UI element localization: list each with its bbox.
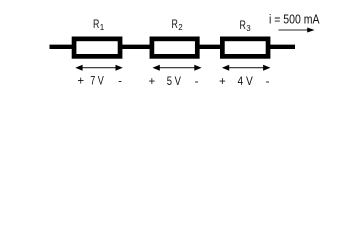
wire <box>50 45 296 49</box>
svg-text:-: - <box>118 76 122 88</box>
current arrow <box>279 28 315 33</box>
resistor R3 <box>222 39 268 57</box>
label +4V- <box>219 76 270 88</box>
voltage arrow V3 <box>222 65 271 71</box>
svg-text:4 V: 4 V <box>238 76 254 88</box>
svg-text:7 V: 7 V <box>90 76 104 88</box>
svg-text:5 V: 5 V <box>167 76 181 88</box>
svg-text:i = 500 mA: i = 500 mA <box>269 13 320 27</box>
svg-text:-: - <box>195 76 199 88</box>
label +7V- <box>77 76 122 88</box>
svg-text:+: + <box>219 76 226 88</box>
resistor R2 <box>152 39 197 57</box>
svg-text:+: + <box>77 76 84 88</box>
svg-text:+: + <box>148 76 155 88</box>
voltage arrow V2 <box>153 65 202 71</box>
label +5V- <box>148 76 198 88</box>
voltage arrow V1 <box>75 65 123 71</box>
resistor R1 <box>74 39 120 57</box>
svg-text:-: - <box>266 76 270 88</box>
